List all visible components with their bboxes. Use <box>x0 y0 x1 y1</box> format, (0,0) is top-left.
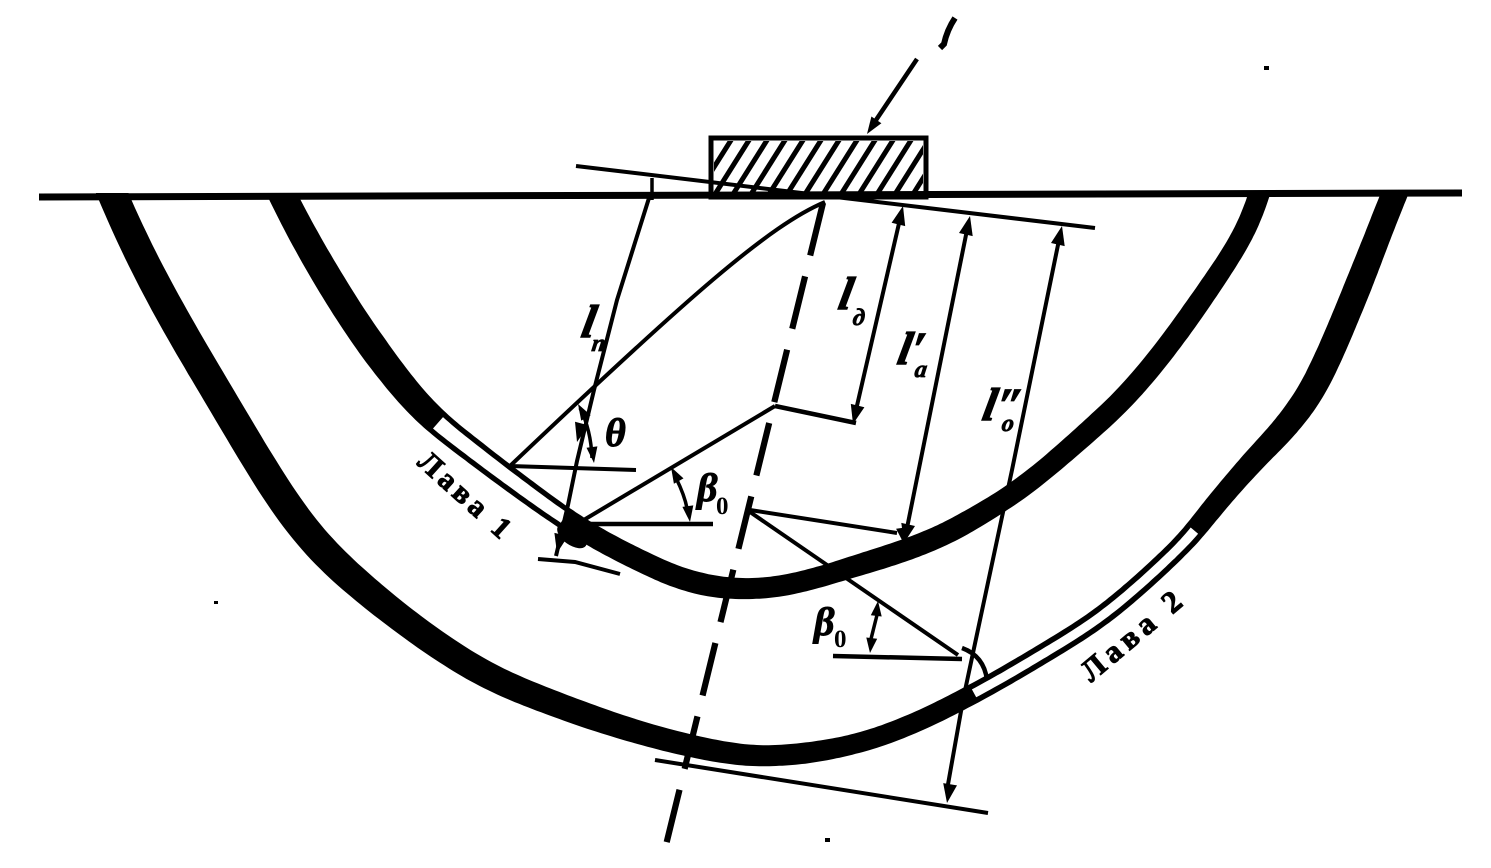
svg-text:0: 0 <box>834 626 847 653</box>
svg-text:а: а <box>913 357 929 383</box>
svg-text:θ: θ <box>605 410 626 455</box>
svg-text:д: д <box>851 305 867 331</box>
svg-text:о: о <box>1000 411 1016 437</box>
svg-text:0: 0 <box>716 493 729 520</box>
svg-text:β: β <box>812 599 835 644</box>
svg-text:β: β <box>695 465 718 510</box>
